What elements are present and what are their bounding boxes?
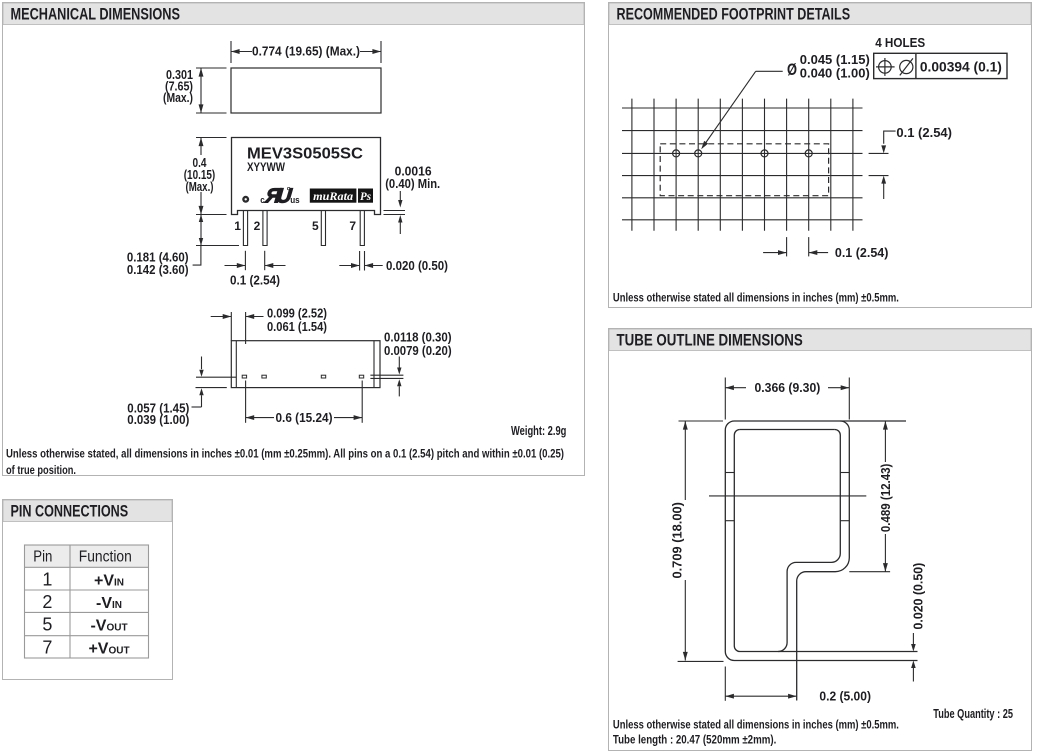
position tolerance symbol <box>879 61 892 74</box>
svg-text:Unless otherwise stated all di: Unless otherwise stated all dimensions i… <box>613 291 899 305</box>
svg-text:0.489 (12.43): 0.489 (12.43) <box>879 464 893 533</box>
svg-text:0.6 (15.24): 0.6 (15.24) <box>276 411 333 425</box>
svg-text:(Max.): (Max.) <box>163 91 193 105</box>
svg-text:0.2 (5.00): 0.2 (5.00) <box>819 690 871 704</box>
dimension 0.709 (18.00) tube height <box>679 420 724 422</box>
svg-text:2: 2 <box>254 219 261 233</box>
dimension 0.301 (7.65) (Max.) depth of package <box>196 67 227 69</box>
pin table row lines <box>25 566 149 568</box>
svg-text:0.142 (3.60): 0.142 (3.60) <box>127 263 189 277</box>
svg-text:2: 2 <box>42 592 52 612</box>
svg-text:(Max.): (Max.) <box>186 180 214 194</box>
svg-text:0.1 (2.54): 0.1 (2.54) <box>896 126 952 140</box>
dimension 0.181 (4.60) / 0.142 (3.60) pin length <box>196 245 239 247</box>
Ps logo block <box>358 189 373 203</box>
svg-text:0.0079 (0.20): 0.0079 (0.20) <box>384 344 452 358</box>
tube outer top wall <box>725 421 906 430</box>
tube inner cavity top edge <box>740 429 835 431</box>
svg-text:0.1 (2.54): 0.1 (2.54) <box>230 274 280 288</box>
svg-text:0.020 (0.50): 0.020 (0.50) <box>911 563 925 630</box>
svg-text:RECOMMENDED FOOTPRINT DETAILS: RECOMMENDED FOOTPRINT DETAILS <box>617 6 851 24</box>
svg-text:0.045 (1.15): 0.045 (1.15) <box>800 53 870 67</box>
dimension 0.1 (2.54) column pitch bottom <box>786 237 788 256</box>
svg-text:XYYWW: XYYWW <box>247 162 285 174</box>
diameter symbol <box>900 60 913 73</box>
feature control frame <box>874 53 1007 78</box>
tube inner right wall and ledge <box>778 430 840 652</box>
dimension 0.6 (15.24) pin 1 to pin 7 <box>245 381 247 423</box>
pin table column divider <box>69 545 71 658</box>
dimension 0.4 (10.15) (Max.) body height <box>196 137 227 139</box>
svg-text:TUBE OUTLINE DIMENSIONS: TUBE OUTLINE DIMENSIONS <box>617 332 803 350</box>
svg-text:0.00394 (0.1): 0.00394 (0.1) <box>920 58 1002 74</box>
svg-text:Unless otherwise stated all di: Unless otherwise stated all dimensions i… <box>613 718 899 732</box>
tube wall tick marks <box>725 472 734 474</box>
svg-text:7: 7 <box>42 637 52 657</box>
panel: PIN CONNECTIONS <box>3 500 173 680</box>
bottom view outline <box>231 341 380 388</box>
UL mark registered symbol <box>287 187 290 190</box>
hole pin1 <box>673 150 680 157</box>
svg-text:0.040 (1.00): 0.040 (1.00) <box>800 66 870 80</box>
svg-text:Weight: 2.9g: Weight: 2.9g <box>511 424 566 438</box>
svg-text:Ø: Ø <box>787 61 797 79</box>
svg-text:0.709 (18.00): 0.709 (18.00) <box>671 502 685 579</box>
svg-text:0.0016: 0.0016 <box>395 164 432 178</box>
dimension 0.774 (19.65) (Max.) width of package <box>230 41 232 63</box>
dimension 0.020 (0.50) pin width <box>359 251 361 271</box>
svg-text:5: 5 <box>312 219 319 233</box>
svg-text:0.061 (1.54): 0.061 (1.54) <box>267 320 327 334</box>
pin 1 indicator dot <box>242 196 249 203</box>
svg-text:Tube length : 20.47 (520mm ±2m: Tube length : 20.47 (520mm ±2mm). <box>613 733 776 747</box>
svg-text:of true position.: of true position. <box>6 463 76 477</box>
tube mid reference line <box>709 495 866 497</box>
murata logo block <box>310 189 357 203</box>
svg-text:0.0118 (0.30): 0.0118 (0.30) <box>384 331 452 345</box>
dimension 0.057 (1.45) / 0.039 (1.00) pad to edge <box>196 376 236 378</box>
hole diameter leader and label <box>756 70 783 72</box>
svg-text:0.099 (2.52): 0.099 (2.52) <box>267 306 327 320</box>
dimension 0.1 (2.54) pin pitch <box>244 251 246 270</box>
svg-text:0.1 (2.54): 0.1 (2.54) <box>835 246 889 260</box>
hole pin5 <box>761 150 768 157</box>
svg-text:(0.40) Min.: (0.40) Min. <box>385 177 440 191</box>
svg-text:Tube Quantity : 25: Tube Quantity : 25 <box>933 707 1013 721</box>
tube outer right wall down to ledge <box>797 421 850 701</box>
panel: MECHANICAL DIMENSIONS <box>3 3 585 476</box>
front view of package body with feet <box>232 138 381 215</box>
bottom view right wall line <box>373 341 375 388</box>
svg-text:PIN CONNECTIONS: PIN CONNECTIONS <box>11 503 129 521</box>
footprint grid vertical lines <box>631 99 633 231</box>
svg-text:Pin: Pin <box>33 548 52 565</box>
bottom view left wall line <box>235 341 237 388</box>
dimension 0.366 (9.30) tube width <box>724 378 726 420</box>
hole pin7 <box>805 150 812 157</box>
svg-text:Ps: Ps <box>360 191 372 203</box>
pin table outer border <box>25 545 149 658</box>
svg-text:0.366 (9.30): 0.366 (9.30) <box>755 381 821 395</box>
dimension 0.1 (2.54) row pitch right <box>884 131 896 144</box>
svg-text:0.020 (0.50): 0.020 (0.50) <box>386 259 448 273</box>
svg-text:0.774 (19.65) (Max.): 0.774 (19.65) (Max.) <box>252 44 360 59</box>
pins 1 2 5 7 front view <box>243 211 247 246</box>
dimension 0.489 (12.43) ledge height <box>849 571 890 573</box>
panel: RECOMMENDED FOOTPRINT DETAILS <box>609 3 1032 308</box>
svg-text:1: 1 <box>234 219 241 233</box>
svg-text:7: 7 <box>349 219 356 233</box>
svg-text:us: us <box>290 195 300 206</box>
tube outer left wall and bottom <box>725 430 917 661</box>
svg-text:muRata: muRata <box>313 191 353 203</box>
pin table header row background <box>25 545 149 567</box>
footprint grid horizontal lines <box>622 107 863 109</box>
svg-text:1: 1 <box>42 569 52 589</box>
top view outline of converter package <box>231 68 381 113</box>
svg-text:0.039 (1.00): 0.039 (1.00) <box>127 413 189 427</box>
pin pads in bottom view <box>242 375 246 378</box>
svg-text:MECHANICAL DIMENSIONS: MECHANICAL DIMENSIONS <box>11 6 181 24</box>
dimension 0.099 (2.52) / 0.061 (1.54) pin 1 offset <box>230 312 232 341</box>
svg-text:4 HOLES: 4 HOLES <box>875 35 925 50</box>
svg-text:MEV3S0505SC: MEV3S0505SC <box>247 145 363 162</box>
svg-text:Unless otherwise stated, all d: Unless otherwise stated, all dimensions … <box>6 447 564 461</box>
dimension 0.2 (5.00) notch width <box>724 667 726 701</box>
tube inner cavity top and left <box>734 430 917 652</box>
hole pin2 <box>695 150 702 157</box>
svg-text:5: 5 <box>42 615 52 635</box>
panel: TUBE OUTLINE DIMENSIONS <box>609 329 1032 751</box>
package outline dashed on footprint <box>660 144 828 196</box>
svg-text:Function: Function <box>79 548 132 565</box>
